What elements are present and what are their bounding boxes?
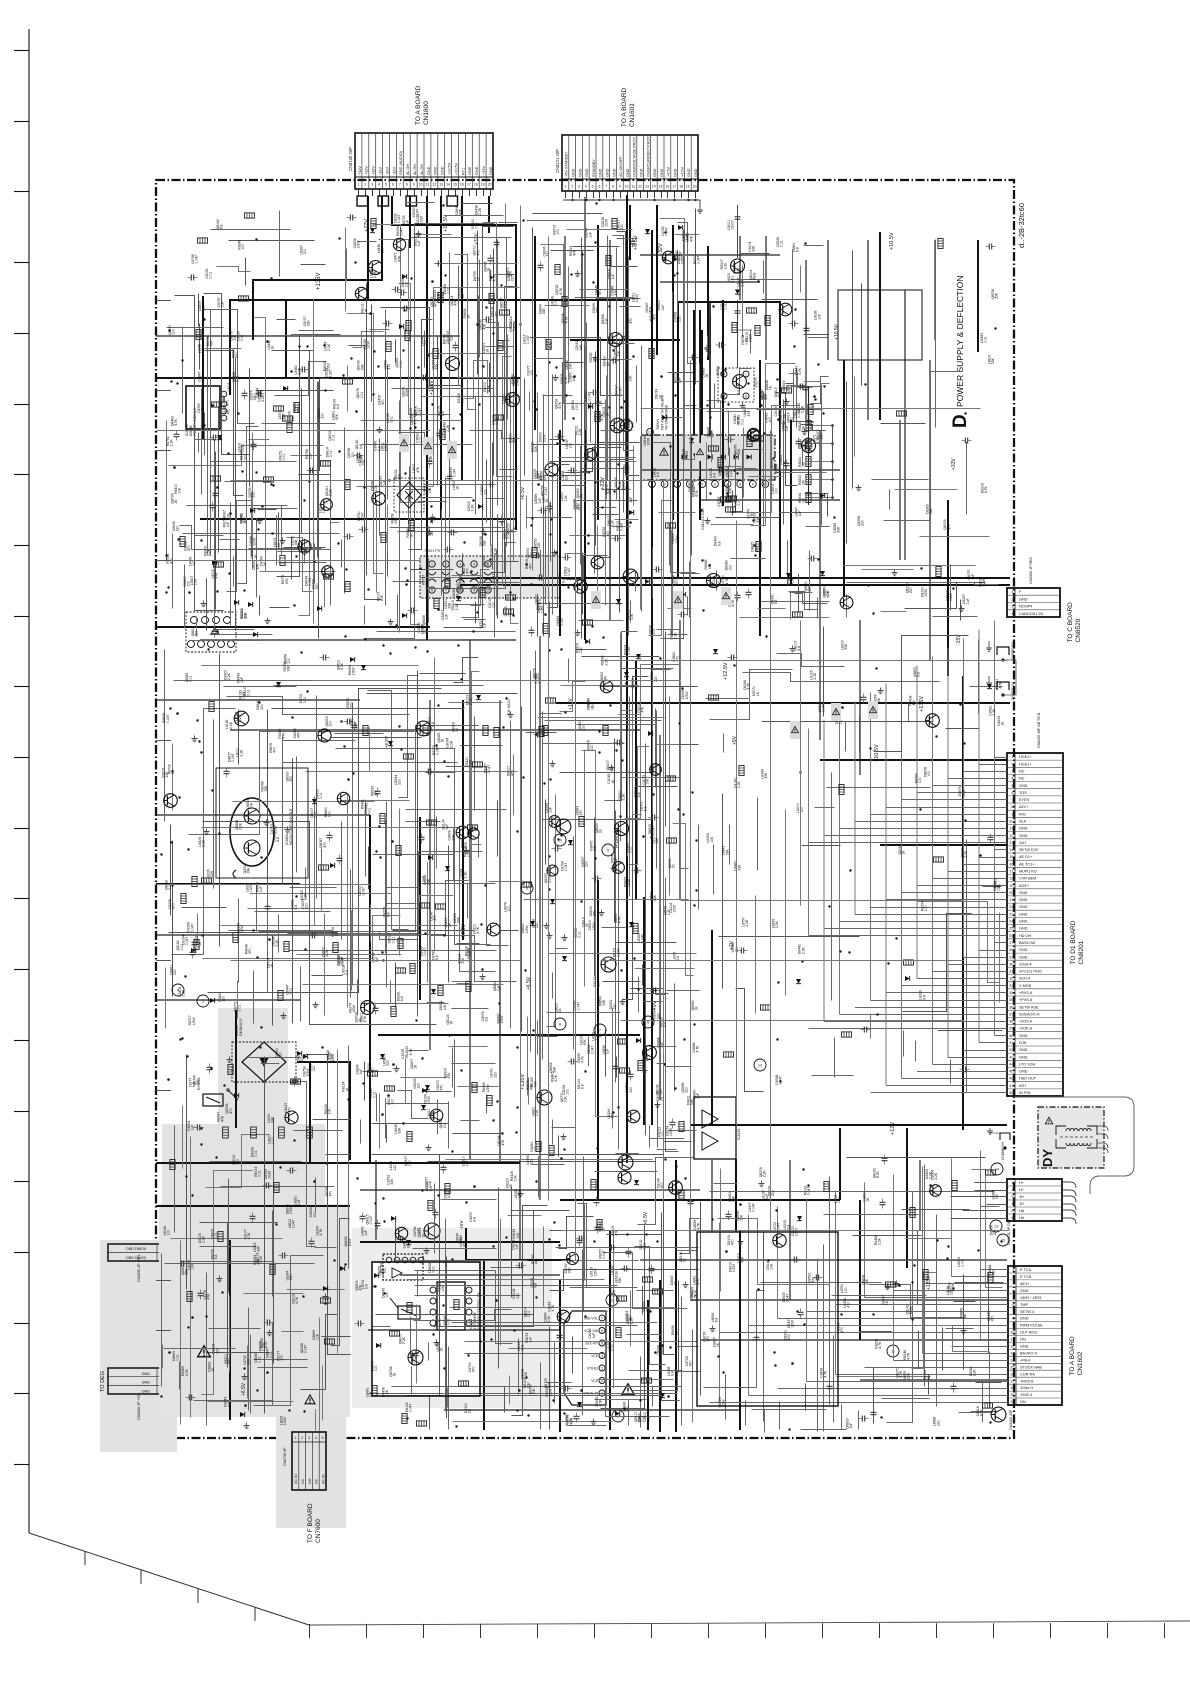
wire	[493, 249, 495, 476]
wire	[796, 369, 798, 428]
capacitor	[327, 834, 333, 836]
diode	[402, 274, 407, 279]
ground	[429, 529, 431, 532]
bus wire	[426, 196, 428, 640]
wire	[259, 726, 479, 932]
svg-text:CN8686 RX: CN8686 RX	[1001, 1141, 1005, 1160]
junction	[530, 583, 533, 586]
junction	[303, 499, 305, 501]
wire	[344, 428, 346, 594]
wire	[455, 255, 477, 410]
junction	[594, 481, 596, 483]
wire	[373, 225, 424, 503]
resistor	[211, 476, 221, 481]
ground	[577, 271, 579, 274]
wire	[274, 685, 484, 687]
svg-text:6: 6	[601, 1329, 603, 1333]
wire	[707, 336, 709, 357]
connector bracket CN8577	[997, 682, 1009, 690]
wire	[490, 270, 492, 546]
svg-text:L80650.047: L80650.047	[661, 226, 669, 236]
wire	[409, 320, 433, 550]
svg-text:GND: GND	[674, 168, 678, 177]
diode	[820, 571, 825, 576]
wire	[795, 594, 828, 604]
ruler tick bottom	[651, 1624, 653, 1638]
wire	[420, 308, 462, 386]
wire	[259, 596, 261, 616]
svg-text:NC: NC	[315, 1478, 319, 1484]
wire	[683, 230, 685, 523]
diode	[217, 435, 222, 440]
svg-text:47: 47	[1009, 1084, 1013, 1088]
svg-text:SETW DJV: SETW DJV	[1019, 848, 1039, 852]
wire	[409, 467, 411, 502]
wire	[452, 1008, 489, 1010]
bus wire	[675, 1160, 677, 1432]
junction	[763, 432, 765, 434]
svg-text:ON: ON	[1020, 1400, 1026, 1404]
DY core dashed line	[1060, 1136, 1094, 1138]
junction	[165, 591, 167, 593]
wire	[406, 821, 441, 823]
wire	[198, 294, 200, 327]
transistor	[298, 540, 311, 553]
wire	[932, 657, 934, 972]
svg-text:13: 13	[645, 185, 649, 189]
svg-text:GND: GND	[612, 168, 616, 177]
wire	[640, 1259, 1007, 1261]
resistor	[278, 991, 283, 1001]
svg-text:AC IN: AC IN	[321, 1474, 325, 1484]
wire	[256, 883, 258, 932]
wire	[947, 648, 949, 779]
wire	[590, 402, 592, 443]
junction	[564, 541, 566, 543]
wire	[238, 710, 240, 765]
wire	[901, 675, 903, 1079]
wire	[612, 526, 631, 528]
ground	[482, 974, 484, 977]
page ruler vertical line	[28, 29, 30, 1533]
wire	[606, 376, 608, 500]
junction	[565, 394, 567, 396]
wire	[582, 251, 584, 300]
svg-text:20: 20	[1010, 1400, 1014, 1404]
wire	[776, 393, 798, 486]
wire	[301, 389, 303, 534]
wire	[513, 324, 515, 562]
wire	[486, 481, 488, 523]
diode	[361, 665, 366, 670]
wire	[537, 393, 539, 479]
junction	[364, 638, 366, 640]
svg-text:9: 9	[526, 886, 528, 890]
diode	[191, 948, 196, 953]
svg-text:NOOP4: NOOP4	[1019, 605, 1032, 609]
wire	[905, 583, 986, 609]
fan wires to CN8611	[975, 1182, 1008, 1184]
resistor	[546, 340, 551, 350]
wire	[288, 852, 483, 934]
junction	[187, 848, 189, 850]
resistor	[287, 423, 292, 433]
junction	[203, 318, 205, 320]
svg-text:GND: GND	[572, 168, 576, 177]
wire	[314, 544, 316, 584]
op-amp IC8451	[694, 1097, 736, 1159]
wire to CN1602 pin	[865, 1367, 1009, 1369]
svg-text:CN1602: CN1602	[1077, 1351, 1084, 1375]
svg-text:1: 1	[1011, 1181, 1013, 1185]
capacitor	[746, 591, 752, 593]
wire	[301, 264, 326, 266]
gray zone standby block	[352, 1228, 552, 1408]
junction	[431, 280, 434, 283]
junction	[463, 541, 465, 543]
transistor	[840, 596, 853, 609]
wire	[156, 699, 360, 701]
wire	[335, 733, 384, 735]
CN1601 pin number row	[562, 178, 698, 180]
junction	[355, 410, 358, 413]
wire	[793, 369, 795, 412]
transistor	[321, 499, 333, 511]
wire to CN1602 pin	[749, 1325, 1009, 1327]
resistor	[409, 521, 414, 531]
wire	[436, 817, 438, 869]
wire to CN8201 pin	[995, 849, 1008, 851]
wire	[375, 1160, 377, 1240]
transistor	[468, 828, 479, 839]
resistor	[897, 411, 907, 416]
wire	[183, 533, 340, 535]
wire to CN1602 pin	[894, 1290, 1009, 1292]
wire	[205, 348, 242, 350]
wire	[735, 453, 737, 508]
IC8801 standby controller	[437, 1282, 465, 1330]
svg-text:MUPU KO: MUPU KO	[1019, 870, 1037, 874]
node 14	[991, 1163, 1003, 1175]
wire	[932, 657, 934, 786]
DY coil upper	[1056, 1126, 1066, 1135]
svg-text:+6.5V: +6.5V	[241, 1382, 247, 1396]
resistor	[391, 1007, 396, 1017]
svg-text:1: 1	[357, 183, 359, 187]
svg-text:L83141/2W: L83141/2W	[245, 882, 253, 892]
wire	[164, 650, 166, 822]
wire	[422, 396, 483, 398]
svg-text:ST6-BJ: ST6-BJ	[587, 1367, 598, 1371]
resistor	[666, 523, 676, 528]
svg-text:3: 3	[1011, 1195, 1013, 1199]
wire	[947, 648, 949, 872]
wire	[341, 540, 343, 568]
bus wire	[156, 883, 300, 885]
svg-text:VCE: VCE	[591, 1354, 599, 1358]
resistor	[440, 430, 445, 440]
svg-text:L87480.047: L87480.047	[191, 254, 199, 264]
junction	[388, 479, 390, 481]
wire	[947, 648, 949, 1058]
wire	[350, 870, 352, 998]
wire	[230, 503, 232, 626]
wire	[495, 274, 515, 276]
wire	[613, 236, 634, 451]
wire	[197, 914, 199, 944]
svg-text:E TCU: E TCU	[1020, 1268, 1032, 1272]
capacitor	[213, 492, 219, 494]
connector DEG DMOX	[108, 1244, 165, 1261]
resistor	[406, 321, 411, 331]
junction	[484, 533, 486, 535]
wire	[513, 755, 515, 816]
wire	[610, 266, 638, 268]
svg-text:5: 5	[1012, 1296, 1014, 1300]
wire	[497, 240, 499, 506]
bus wire	[790, 420, 792, 585]
junction	[460, 678, 462, 680]
resistor	[380, 814, 385, 824]
capacitor	[346, 719, 348, 725]
ground	[194, 736, 196, 739]
wire	[499, 700, 501, 1163]
bus wire	[556, 702, 1010, 704]
wire	[418, 881, 469, 935]
wire	[420, 673, 466, 675]
junction	[258, 701, 260, 703]
junction	[270, 277, 272, 279]
wire	[550, 502, 552, 562]
resistor	[280, 556, 285, 566]
wire	[238, 427, 259, 584]
wire	[541, 245, 607, 404]
wire	[716, 517, 780, 519]
wire	[640, 443, 642, 610]
wire	[763, 392, 765, 527]
svg-text:GND: GND	[1019, 891, 1028, 895]
wire	[227, 697, 410, 715]
wire	[783, 494, 785, 525]
wire to CN8201 pin	[964, 1050, 1008, 1052]
junction	[726, 492, 728, 494]
junction	[198, 740, 200, 742]
junction	[555, 366, 557, 368]
wire	[299, 330, 334, 332]
svg-text:D: D	[950, 414, 971, 428]
wire	[400, 1274, 560, 1276]
wire	[249, 439, 270, 441]
wire	[296, 757, 298, 873]
wire	[314, 797, 316, 926]
svg-text:GND: GND	[1019, 955, 1028, 959]
bus wire	[597, 880, 599, 1200]
wire	[385, 310, 387, 606]
wire	[660, 281, 760, 283]
capacitor	[375, 790, 381, 792]
junction	[218, 832, 220, 834]
svg-text:GND: GND	[1019, 1048, 1028, 1052]
svg-text:H+: H+	[1019, 1188, 1025, 1192]
junction	[324, 389, 326, 391]
junction	[592, 281, 594, 283]
svg-text:+12.5V: +12.5V	[723, 662, 729, 680]
wire	[418, 501, 447, 503]
wire	[172, 744, 174, 811]
DY yoke assembly outline	[1014, 1097, 1134, 1194]
wire	[312, 680, 400, 682]
ground	[283, 1013, 285, 1016]
wire	[581, 238, 583, 639]
wire	[217, 267, 251, 272]
wire	[786, 384, 814, 422]
CN1800 pin number row	[355, 176, 493, 178]
wire	[475, 397, 477, 515]
diode	[210, 998, 215, 1003]
svg-text:+33V: +33V	[951, 458, 957, 470]
wire	[623, 467, 625, 513]
diode	[388, 741, 393, 746]
wire	[994, 621, 996, 758]
wire	[345, 749, 491, 945]
junction	[308, 480, 310, 482]
wire	[255, 911, 331, 913]
junction	[617, 463, 619, 465]
svg-text:10: 10	[558, 838, 562, 842]
wire	[867, 240, 869, 420]
wire	[719, 1223, 721, 1403]
junction	[555, 551, 558, 554]
svg-text:8: 8	[406, 183, 408, 187]
wire	[230, 729, 640, 731]
wire	[649, 501, 674, 636]
wire	[274, 828, 496, 972]
transformer T8801 oval	[230, 798, 274, 866]
junction	[531, 517, 533, 519]
junction	[363, 486, 365, 488]
wire	[347, 795, 349, 964]
junction	[402, 349, 404, 351]
wire to CN8201 pin	[902, 799, 1008, 801]
svg-text:GND: GND	[1019, 1070, 1028, 1074]
wire to CN8201 pin	[995, 1035, 1008, 1037]
wire	[373, 854, 454, 856]
svg-text:GND: GND	[626, 168, 630, 177]
svg-text:GND: GND	[1019, 1055, 1028, 1059]
svg-text:45: 45	[1009, 1070, 1013, 1074]
T8001 primary coils	[429, 561, 435, 567]
wire	[229, 240, 315, 242]
svg-text:L87150.047: L87150.047	[773, 1222, 781, 1232]
junction	[447, 775, 449, 777]
svg-text:TO DEG: TO DEG	[100, 1371, 106, 1392]
junction	[377, 365, 379, 367]
wire	[172, 709, 236, 955]
wire	[445, 215, 504, 217]
wire	[306, 771, 518, 773]
wire	[950, 565, 952, 611]
capacitor	[301, 367, 303, 373]
svg-text:SOEAOO-H: SOEAOO-H	[1019, 1012, 1040, 1016]
resistor	[468, 825, 478, 830]
Q8802 transistor	[424, 1223, 440, 1239]
svg-text:1: 1	[294, 1436, 296, 1440]
connector CN8201	[1007, 753, 1063, 1096]
wire	[345, 228, 347, 312]
wire	[711, 431, 713, 463]
transistor	[372, 492, 385, 505]
svg-text:CN8130 20P: CN8130 20P	[348, 147, 353, 171]
CN1601 pin stubs	[565, 191, 567, 198]
wire	[256, 519, 258, 598]
wire	[303, 984, 504, 986]
junction	[549, 533, 551, 535]
junction	[216, 630, 219, 633]
junction	[344, 635, 346, 637]
capacitor	[373, 1007, 379, 1009]
T8004 top sub coil box	[718, 368, 754, 402]
junction	[500, 620, 502, 622]
wire	[351, 911, 353, 991]
wire	[289, 950, 497, 952]
ground	[554, 550, 556, 553]
wire	[703, 479, 735, 481]
svg-text:5: 5	[1011, 784, 1013, 788]
capacitor	[309, 468, 311, 474]
svg-text:1: 1	[1011, 590, 1013, 594]
junction	[382, 959, 384, 961]
svg-text:H+: H+	[1019, 1181, 1025, 1185]
junction	[480, 923, 482, 925]
resistor	[808, 405, 813, 415]
wire	[420, 497, 473, 499]
ground	[287, 827, 289, 830]
ruler tick on diagonal	[254, 1607, 256, 1621]
resistor	[192, 877, 197, 887]
resistor	[732, 323, 737, 333]
bus wire	[759, 360, 761, 636]
wire	[362, 444, 473, 446]
bus wire	[156, 626, 430, 628]
wire	[195, 535, 224, 537]
junction	[298, 345, 300, 347]
wire to CN8201 pin	[948, 871, 1007, 873]
capacitor	[212, 630, 218, 632]
wire to CN8201 pin	[948, 778, 1007, 780]
junction	[505, 697, 507, 699]
ground	[304, 549, 306, 552]
wire	[582, 554, 584, 615]
svg-text:BLK-A/T: BLK-A/T	[586, 1342, 598, 1346]
junction	[306, 690, 308, 692]
capacitor	[190, 951, 196, 953]
ground	[595, 355, 597, 358]
junction	[817, 558, 819, 560]
wire	[281, 506, 283, 555]
wire	[276, 516, 278, 566]
bus wire	[880, 844, 1007, 846]
svg-text:TO A BOARD: TO A BOARD	[621, 87, 628, 127]
svg-text:L85920.047: L85920.047	[623, 464, 631, 474]
connector CN8611	[1007, 1179, 1062, 1221]
wire	[488, 323, 510, 341]
wire to CN8201 pin	[964, 771, 1008, 773]
wire	[270, 607, 290, 609]
capacitor	[224, 770, 230, 772]
wire	[278, 513, 280, 550]
wire	[210, 634, 273, 636]
junction	[833, 516, 835, 518]
